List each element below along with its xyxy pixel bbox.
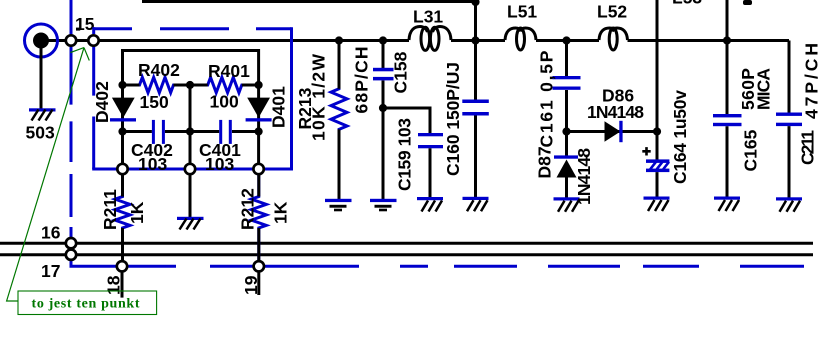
svg-text:C211: C211	[798, 130, 818, 165]
svg-text:C164 1u50v: C164 1u50v	[670, 90, 690, 184]
svg-text:103: 103	[138, 154, 167, 174]
node box bottom right	[253, 164, 263, 174]
wire column middle	[189, 85, 192, 217]
svg-text:D401: D401	[269, 86, 289, 128]
wire connector to ground	[40, 48, 43, 109]
junction D86 right	[653, 127, 661, 135]
inductor L52	[599, 28, 628, 50]
svg-text:D87: D87	[535, 146, 555, 178]
svg-text:1N4148: 1N4148	[587, 102, 644, 122]
connector 503	[25, 24, 58, 57]
ground middle box	[177, 217, 204, 230]
wire C160 vertical	[474, 2, 477, 100]
node 17	[66, 250, 76, 260]
svg-text:L31: L31	[413, 7, 443, 27]
node 15a	[66, 35, 76, 45]
diode D87	[554, 132, 578, 199]
svg-text:103: 103	[205, 154, 234, 174]
node 16	[66, 238, 76, 248]
svg-text:C160 150P/UJ: C160 150P/UJ	[443, 62, 463, 176]
inductor L51	[505, 28, 536, 50]
wire blue box right edge	[290, 27, 293, 169]
resistor R402	[123, 77, 191, 92]
svg-text:R402: R402	[138, 60, 180, 80]
node junction top	[471, 0, 479, 6]
diode D402	[110, 98, 136, 122]
wire stub 18	[121, 272, 124, 298]
svg-text:R211: R211	[100, 189, 120, 230]
wire blue box left edge	[92, 27, 95, 169]
svg-text:47P/CH: 47P/CH	[802, 43, 818, 119]
wire C158 to ground	[382, 108, 385, 199]
resistor R212	[251, 169, 266, 266]
ground C164	[644, 197, 670, 212]
ground C211	[776, 197, 802, 212]
wire blue dashed horizontal bottom	[210, 265, 804, 268]
diode D401	[246, 98, 272, 122]
svg-text:17: 17	[41, 261, 60, 281]
junction C158 bottom	[379, 104, 387, 112]
ground C158	[370, 199, 397, 212]
wire blue box top dashed	[94, 27, 292, 30]
svg-text:503: 503	[26, 123, 55, 143]
svg-text:C158: C158	[391, 51, 411, 93]
svg-text:C161 0,5P: C161 0,5P	[537, 50, 557, 147]
svg-text:R401: R401	[208, 61, 250, 81]
capacitor C160	[462, 100, 489, 198]
capacitor C164	[642, 147, 669, 197]
resistor R211	[115, 169, 130, 266]
junction C160	[471, 36, 479, 44]
wire box frame top	[123, 49, 259, 52]
svg-text:C159 103: C159 103	[395, 118, 415, 191]
capacitor C402	[123, 120, 191, 144]
svg-text:18: 18	[104, 275, 124, 295]
svg-text:R212: R212	[238, 188, 258, 230]
node 18	[117, 261, 127, 271]
svg-text:to jest ten punkt: to jest ten punkt	[32, 297, 140, 312]
junction C161	[562, 36, 570, 44]
ground R213	[325, 199, 352, 212]
svg-text:16: 16	[41, 223, 61, 243]
wire column D402	[121, 49, 124, 169]
svg-text:68P/CH: 68P/CH	[352, 47, 372, 114]
svg-text:1N4148: 1N4148	[574, 148, 594, 205]
svg-text:MICA: MICA	[754, 68, 774, 110]
node box bottom left	[117, 164, 127, 174]
ground D87	[554, 197, 580, 212]
junction D86 left	[562, 127, 570, 135]
ground 503	[29, 108, 56, 120]
wire top edge	[142, 0, 476, 3]
capacitor C159	[418, 133, 443, 198]
capacitor C161	[553, 41, 581, 132]
ground C159	[417, 197, 443, 212]
capacitor C165	[713, 114, 742, 198]
junction C158 top	[379, 36, 387, 44]
capacitor C211	[776, 113, 802, 199]
junction dots box	[118, 81, 262, 136]
svg-text:1K: 1K	[127, 201, 147, 224]
svg-text:10K 1/2W: 10K 1/2W	[309, 54, 329, 141]
wire stub 19	[257, 272, 260, 295]
svg-text:L53: L53	[672, 0, 702, 8]
svg-text:L51: L51	[507, 2, 537, 22]
ground C165	[714, 197, 740, 212]
svg-text:19: 19	[241, 275, 261, 295]
diode D86	[567, 121, 658, 142]
svg-text:15: 15	[75, 14, 95, 34]
wire main rail	[48, 41, 789, 113]
junction R213	[335, 36, 343, 44]
inductor L31	[409, 27, 451, 51]
wire C158 to C159	[383, 108, 430, 133]
wire bus line 16	[0, 242, 813, 245]
svg-text:150: 150	[140, 92, 169, 112]
svg-text:100: 100	[210, 92, 239, 112]
ground C160	[463, 197, 489, 212]
capacitor C401	[190, 120, 259, 144]
node 15b	[88, 35, 98, 45]
svg-text:L52: L52	[597, 2, 627, 22]
wire C165 vertical	[726, 0, 729, 115]
capacitor C158	[373, 41, 394, 109]
resistor R401	[190, 77, 259, 92]
annotation green box	[18, 291, 157, 315]
svg-text:D402: D402	[92, 81, 112, 123]
partial glyph top right	[743, 0, 752, 5]
wire blue box bottom rail	[92, 168, 293, 171]
node box bottom middle	[185, 164, 195, 174]
resistor R213	[331, 41, 347, 200]
wire column D401	[257, 49, 260, 169]
wire blue dashed vertical left	[71, 0, 176, 266]
node 19	[254, 261, 264, 271]
node marker dot	[76, 28, 80, 31]
annotation green arrow	[7, 48, 90, 301]
wire C164 vertical	[656, 0, 659, 160]
wire bus line 17	[0, 253, 813, 256]
svg-text:1K: 1K	[271, 201, 291, 224]
junction C165	[723, 36, 731, 44]
svg-text:C165: C165	[741, 129, 761, 171]
